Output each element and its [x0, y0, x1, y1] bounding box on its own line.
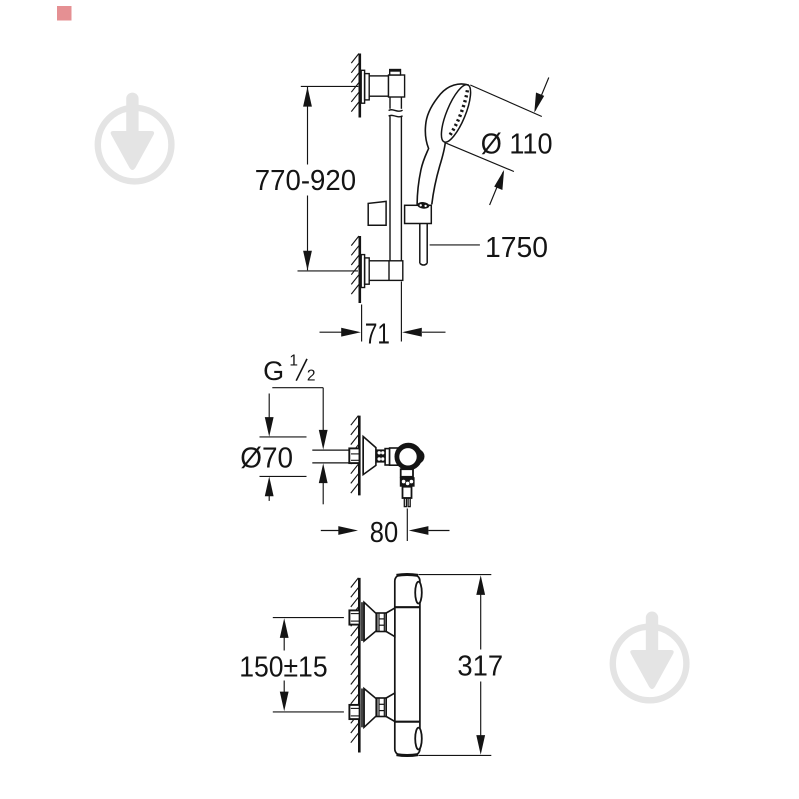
- mixer body: [395, 575, 420, 756]
- rail tube: [390, 97, 401, 280]
- knurled nut (dark with dots): [376, 449, 385, 462]
- bottom union: thread nut: [377, 698, 386, 717]
- svg-text:770-920: 770-920: [255, 165, 356, 197]
- outlet knurled nut: [400, 477, 415, 487]
- wall (middle section): [358, 416, 361, 496]
- top rail bracket arm: [369, 76, 388, 96]
- bottom rail bracket escutcheon: [361, 255, 369, 288]
- svg-text:317: 317: [457, 651, 503, 683]
- wall hatching middle: [351, 416, 359, 494]
- hose stub below holder: [420, 224, 427, 266]
- top union: escutcheon cone: [362, 602, 376, 641]
- leader line 1750: [430, 244, 480, 246]
- dim D110 upper arrow: [534, 78, 549, 113]
- dim 80 arrows: [321, 530, 339, 532]
- svg-text:80: 80: [370, 517, 398, 549]
- escutcheon (middle): [363, 437, 376, 475]
- dim 317 line + arrows: [480, 595, 482, 650]
- supply pipe behind wall: [312, 449, 349, 451]
- spray nozzle dotted band: [449, 90, 467, 136]
- svg-text:2: 2: [307, 368, 316, 385]
- wall hatching bottom: [351, 578, 359, 743]
- top rail bracket escutcheon: [361, 70, 369, 103]
- svg-text:Ø 110: Ø 110: [481, 129, 553, 161]
- hand shower head (dome outline + handle): [417, 84, 469, 205]
- rail break mark: [388, 109, 404, 117]
- svg-text:150±15: 150±15: [239, 652, 327, 684]
- dim D70 extension lines: [260, 436, 307, 438]
- top knob (edge-on): [415, 582, 422, 604]
- shower holder block on rail: [368, 201, 386, 225]
- wall (bottom section): [358, 578, 361, 753]
- svg-text:G: G: [263, 356, 284, 386]
- dim 770-920 extension lines: [298, 86, 359, 271]
- outlet tip prongs: [404, 498, 410, 507]
- svg-text:1750: 1750: [485, 232, 548, 264]
- cylinder to ball joint: [390, 448, 398, 465]
- hand shower spray face (tilted ellipse rim): [436, 81, 477, 145]
- outlet tube: [403, 487, 412, 498]
- rail end cap (top): [389, 70, 401, 75]
- svg-text:Ø70: Ø70: [240, 442, 293, 474]
- ring collar: [385, 449, 390, 465]
- watermark logo right-middle: [613, 612, 687, 701]
- dim 150+-15 extension lines: [273, 617, 344, 619]
- wall (top section, upper segment): [358, 54, 361, 118]
- wall (top section, lower segment): [358, 236, 361, 303]
- handle cone in holder: [417, 201, 430, 209]
- rail clamp (top): [389, 75, 405, 97]
- dim 317 extension lines: [419, 574, 492, 576]
- ball joint housing: [397, 445, 424, 468]
- svg-text:1: 1: [289, 352, 298, 369]
- bottom union: flare into body: [386, 693, 395, 722]
- dim D110 extension lines (diagonal): [446, 85, 542, 172]
- dim D70 arrows: [268, 394, 270, 419]
- bottom union: escutcheon cone: [362, 689, 376, 728]
- top union: flare into body: [386, 608, 395, 637]
- top union: thread nut: [377, 613, 386, 632]
- bottom union: pipe nut behind wall: [349, 705, 360, 719]
- svg-text:71: 71: [365, 318, 390, 350]
- bottom knob (edge-on): [415, 728, 422, 750]
- wall hatching lower: [351, 236, 359, 294]
- outlet cylinder below ball: [401, 469, 413, 477]
- dim 80 extension line: [406, 509, 408, 542]
- bottom rail bracket clamp: [369, 261, 403, 281]
- top union: pipe nut behind wall: [349, 610, 360, 624]
- dim 71 extension lines: [362, 282, 402, 342]
- dim 71 arrows: [320, 328, 446, 337]
- pipe nut at wall: [349, 448, 359, 463]
- leader G 1/2 with thread arrows: [272, 388, 327, 505]
- holder arm: [405, 205, 432, 223]
- dim 150+-15 line + arrows: [283, 638, 285, 651]
- watermark logo top-left: [98, 93, 172, 182]
- dim 770-920 dimension line + arrows: [303, 87, 312, 271]
- wall hatching upper: [351, 54, 359, 112]
- dim D110 lower arrow: [490, 170, 505, 205]
- red marker square: [57, 6, 72, 21]
